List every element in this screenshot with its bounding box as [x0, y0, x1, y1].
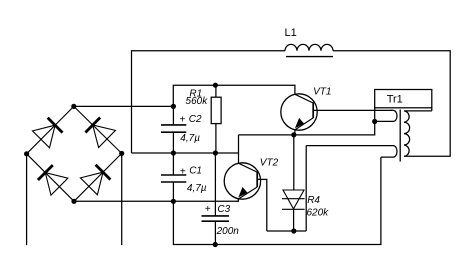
wire AC input lead from left bridge node — [26, 154, 28, 245]
svg-text:560k: 560k — [186, 96, 209, 107]
wire bridge arm top-right — [74, 106, 122, 153]
wire C1 bottom lead — [172, 182, 174, 201]
transformer Tr1 secondary winding — [404, 108, 432, 157]
wire C3 bottom lead — [214, 221, 216, 244]
R4 element cathode bar — [282, 208, 305, 210]
wire R1- to C3 top — [214, 153, 216, 216]
transistor VT1 emitter arrow — [296, 119, 303, 127]
svg-text:+: + — [179, 115, 185, 126]
svg-text:C1: C1 — [189, 166, 202, 177]
transistor VT2 base bar — [256, 172, 258, 187]
node bridge right — [119, 151, 124, 156]
diode VD4 (bottom-to-right arm, cathode at right node) — [96, 165, 111, 180]
transistor VT2 collector lead — [238, 135, 240, 163]
wire C2 top lead — [172, 106, 174, 124]
wire bridge top node to C2/R1 column — [74, 105, 174, 107]
svg-text:200n: 200n — [216, 226, 240, 237]
diode VD2 (top-to-right arm, cathode at top node) — [85, 118, 100, 133]
node junction C2-/C1+ — [171, 150, 176, 155]
transformer Tr1 label box — [375, 90, 432, 108]
svg-text:Tr1: Tr1 — [387, 94, 403, 106]
node junction R1 top — [213, 83, 218, 88]
transistor VT2 base lead — [257, 179, 267, 231]
transistor VT1 emitter inside — [295, 118, 313, 130]
svg-text:VT2: VT2 — [260, 157, 279, 168]
wire bridge arm bottom-right — [74, 153, 122, 201]
wire +rail (bridge+ to R1 top and VT1 collector) — [173, 85, 295, 106]
wire VT2 base / R4 bottom / Tr1 winding2 link — [267, 230, 306, 232]
wire Tr1 box-bottom to tap node — [374, 108, 376, 122]
wire mid rail (left rail to C2-, R1-, VT2 collector) — [132, 152, 239, 154]
svg-text:VT1: VT1 — [313, 87, 331, 98]
wire C2 bottom lead — [172, 132, 174, 153]
node bridge left — [24, 151, 29, 156]
svg-text:+: + — [180, 167, 186, 178]
node junction C1-/bridge- — [171, 199, 176, 204]
wire R1 top lead — [215, 85, 217, 97]
svg-text:4,7µ: 4,7µ — [187, 183, 207, 194]
inductor L1 — [285, 44, 333, 50]
transistor VT2 emitter inside — [239, 187, 257, 199]
svg-text:C2: C2 — [189, 114, 202, 125]
node junction C3-/bottom rail — [213, 242, 218, 247]
diode VD3 (bottom-to-left arm, cathode at left node) — [38, 165, 53, 180]
wire bridge- to VT2 emitter — [74, 199, 238, 201]
transistor VT1 base lead to Tr1 winding — [313, 109, 393, 111]
node junction VT1 emitter / R4 top — [291, 132, 296, 137]
wire R4 bottom up to Tr1 winding2 top — [305, 146, 307, 231]
transistor VT2 emitter lead — [237, 199, 239, 201]
wire R4 top lead — [293, 135, 295, 190]
svg-text:R4: R4 — [307, 195, 320, 206]
transformer Tr1 core — [399, 110, 401, 162]
wire bottom rail — [173, 157, 381, 244]
wire VT2 collector rail to Tr1 tap — [239, 122, 375, 135]
transformer Tr1 winding loop 2 — [306, 146, 397, 158]
capacitor C2 plates — [161, 124, 186, 126]
transistor VT1 base bar — [312, 102, 314, 118]
L1 core underline — [286, 56, 333, 58]
wire R1 bottom lead — [215, 124, 217, 153]
transformer Tr1 winding loop 1 — [375, 110, 397, 121]
transistor VT1 collector inside — [295, 94, 313, 103]
node junction R1-/C3+ — [213, 150, 218, 155]
node Tr1 winding tap — [372, 119, 377, 124]
transistor VT2 body — [224, 163, 260, 199]
node junction R4 bottom — [291, 228, 296, 233]
transistor VT1 body — [281, 94, 317, 130]
wire AC input lead from right bridge node — [121, 153, 123, 245]
node bridge top (+) — [71, 104, 76, 109]
capacitor C3 plates — [202, 215, 230, 217]
wire R4 bottom lead — [293, 209, 295, 231]
node junction bridge+/C2 top — [171, 104, 176, 109]
R4 element middle bar — [282, 198, 305, 200]
diode VD1 (left-to-top arm, cathode at top node) — [48, 118, 63, 133]
svg-text:L1: L1 — [285, 27, 297, 39]
R4 element triangle — [283, 190, 304, 209]
transistor VT2 emitter arrow — [239, 188, 246, 196]
svg-text:C3: C3 — [217, 204, 230, 215]
svg-text:4,7µ: 4,7µ — [180, 133, 200, 144]
wire bridge arm left-bottom — [27, 154, 74, 202]
transistor VT2 collector inside — [239, 163, 258, 172]
capacitor C1 plates — [161, 174, 186, 176]
wire bridge arm left-top — [27, 106, 74, 153]
node bridge bottom (-) — [71, 199, 76, 204]
svg-text:620k: 620k — [307, 207, 330, 218]
resistor R1 body — [211, 97, 221, 123]
transistor VT1 emitter lead — [294, 130, 296, 135]
wire C1 top lead — [172, 153, 174, 175]
wire top rail right segment to right edge down to Tr1 secondary bottom — [333, 51, 450, 157]
wire top rail left segment (corner to L1) — [132, 51, 286, 153]
svg-text:+: + — [205, 204, 211, 215]
